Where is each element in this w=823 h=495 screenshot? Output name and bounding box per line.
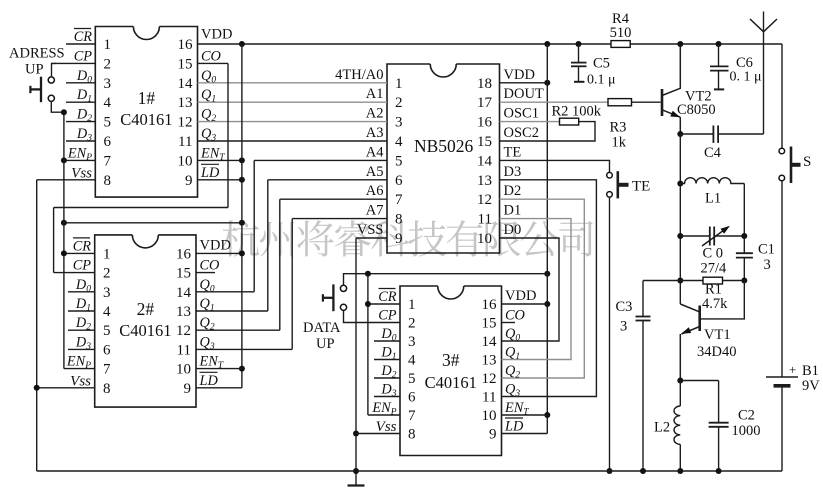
svg-text:2: 2 xyxy=(103,266,111,282)
wire U1 CO out xyxy=(198,62,229,64)
wire U2 VDD to vertical xyxy=(196,252,242,254)
wire U2 D1 stub xyxy=(68,310,95,312)
svg-text:3#: 3# xyxy=(442,350,460,370)
svg-text:Vss: Vss xyxy=(70,373,91,389)
wire NB D2 to U3 Q2 xyxy=(500,199,585,378)
transistor VT1 body bar xyxy=(698,306,701,332)
wire U1 D2 stub xyxy=(66,121,95,123)
svg-text:C4: C4 xyxy=(704,145,722,161)
svg-text:B1: B1 xyxy=(802,363,819,379)
wire U2 D0 stub xyxy=(68,291,95,293)
wire U1 LD to VDD vertical xyxy=(198,179,242,181)
svg-text:CO: CO xyxy=(505,308,525,324)
node VDD rail to NB5026/IC3 vertical xyxy=(544,41,550,47)
svg-text:3: 3 xyxy=(620,319,627,335)
wire U2 Q0 out xyxy=(196,291,254,293)
node ground rail L2 xyxy=(677,468,683,474)
node ground rail TE xyxy=(607,468,613,474)
node VDD rail C6 xyxy=(716,41,722,47)
wire U3 D0 stub xyxy=(374,340,400,342)
svg-text:4.7k: 4.7k xyxy=(702,296,728,312)
svg-text:7: 7 xyxy=(104,153,112,169)
wire ground bottom rail xyxy=(37,470,782,472)
wire CO net into U2 CP xyxy=(54,272,95,274)
wire A5 link U2 Q1 xyxy=(267,180,269,311)
svg-text:15: 15 xyxy=(482,316,497,332)
switch S3 actuator bar xyxy=(616,171,619,198)
svg-text:CP: CP xyxy=(73,258,92,274)
svg-text:9: 9 xyxy=(184,381,192,397)
wire U1 Q1 to NB5026 A1 xyxy=(198,101,388,103)
wire U1 D0 stub xyxy=(66,82,95,84)
svg-text:DATA: DATA xyxy=(303,320,341,336)
wire U2 LD to vertical xyxy=(196,387,242,389)
svg-text:CP: CP xyxy=(378,308,397,324)
svg-text:10: 10 xyxy=(176,362,191,378)
svg-text:A1: A1 xyxy=(366,86,384,102)
ground symbol bar xyxy=(348,484,365,486)
svg-text:CR: CR xyxy=(73,238,92,254)
wire CO net horizontal y=207.5 xyxy=(54,207,228,209)
node U3 CR junction xyxy=(365,301,371,307)
switch S stem xyxy=(791,163,801,167)
switch S1 actuator bar xyxy=(40,77,42,103)
node U2 Vss junction xyxy=(34,385,40,391)
svg-text:6: 6 xyxy=(395,173,403,189)
svg-text:L2: L2 xyxy=(654,420,670,436)
svg-text:A5: A5 xyxy=(366,164,384,180)
wire NB VDD to vertical xyxy=(500,82,548,84)
svg-text:+: + xyxy=(789,362,796,377)
IC U3 3# C40161 body xyxy=(400,286,502,456)
svg-text:UP: UP xyxy=(316,336,335,352)
wire U3 LD to vertical xyxy=(502,433,548,435)
wire CO net vertical at x=53.6 xyxy=(53,208,55,273)
node VDD rail to IC2 vertical xyxy=(239,41,245,47)
svg-text:OSC1: OSC1 xyxy=(504,106,539,122)
wire U1 Q2 to NB5026 A2 xyxy=(198,121,388,123)
node NB VDD junction xyxy=(544,80,550,86)
svg-text:NB5026: NB5026 xyxy=(414,136,474,156)
svg-text:4: 4 xyxy=(103,304,111,320)
svg-text:4TH/A0: 4TH/A0 xyxy=(335,67,383,83)
svg-text:2: 2 xyxy=(395,95,403,111)
wire U1 CR stub xyxy=(66,43,95,45)
svg-text:15: 15 xyxy=(178,56,193,72)
svg-text:TE: TE xyxy=(632,179,650,195)
svg-text:2#: 2# xyxy=(137,299,155,319)
svg-text:4: 4 xyxy=(395,134,403,150)
node L2 C2 top xyxy=(677,378,683,384)
svg-text:14: 14 xyxy=(477,153,493,169)
capacitor C6 xyxy=(718,44,720,66)
svg-text:6: 6 xyxy=(104,134,112,150)
svg-text:5: 5 xyxy=(395,153,403,169)
svg-text:A7: A7 xyxy=(366,203,384,219)
svg-text:5: 5 xyxy=(408,371,416,387)
wire L1 right down xyxy=(743,184,745,237)
wire U2 Q2 out xyxy=(196,329,280,331)
svg-text:D1: D1 xyxy=(504,203,522,219)
svg-text:3: 3 xyxy=(395,115,403,131)
wire U2 EN_P stub xyxy=(64,368,95,370)
svg-text:10: 10 xyxy=(178,153,193,169)
wire U3 CR EN_P vertical x=367.9 xyxy=(367,274,369,415)
node U2 VDD vertical bottom joins EN_T xyxy=(239,366,245,372)
switch S1 stem tick xyxy=(29,86,31,93)
svg-text:2: 2 xyxy=(408,316,416,332)
wire A4 link U2 Q0 xyxy=(253,160,255,291)
node U3 Vss junction xyxy=(353,431,359,437)
switch S2 stem tick xyxy=(322,294,324,301)
svg-text:VDD: VDD xyxy=(201,27,232,43)
wire VDD top rail right segment xyxy=(630,43,782,45)
resistor R1 xyxy=(703,277,723,284)
svg-text:R3: R3 xyxy=(610,120,627,136)
svg-text:1: 1 xyxy=(395,76,403,92)
wire R2 loop to OSC2 xyxy=(500,122,596,141)
svg-text:CR: CR xyxy=(378,289,397,305)
wire NB5026 VSS down to ground rail xyxy=(356,237,387,239)
C0 arrow xyxy=(702,228,728,247)
svg-text:1: 1 xyxy=(103,246,111,262)
svg-text:OSC2: OSC2 xyxy=(504,125,539,141)
node C0 right xyxy=(741,233,747,239)
svg-text:9: 9 xyxy=(185,173,193,189)
wire VT2 emitter chain x=680.3 xyxy=(679,134,681,304)
svg-text:CR: CR xyxy=(74,29,93,45)
capacitor C3 xyxy=(642,281,644,317)
svg-text:DOUT: DOUT xyxy=(504,86,544,102)
svg-text:7: 7 xyxy=(103,362,111,378)
wire U2 CO stub xyxy=(196,272,215,274)
switch S1 ADRESS UP contacts xyxy=(48,77,54,83)
svg-text:13: 13 xyxy=(482,353,497,369)
svg-text:A2: A2 xyxy=(366,106,384,122)
svg-text:7: 7 xyxy=(395,192,403,208)
svg-text:C2: C2 xyxy=(738,408,755,424)
svg-text:VDD: VDD xyxy=(200,237,231,253)
wire C4 to antenna stem xyxy=(763,12,765,135)
transistor VT2 emitter with arrow xyxy=(662,110,680,117)
wire U1 D1 stub xyxy=(66,101,95,103)
node U3 EN_T junction xyxy=(544,412,550,418)
svg-text:C1: C1 xyxy=(758,242,775,258)
node C0 left xyxy=(677,233,683,239)
node U1 EN_P junction xyxy=(61,157,67,163)
switch S2 stem xyxy=(323,297,334,299)
capacitor C5 xyxy=(578,44,580,63)
svg-text:16: 16 xyxy=(176,246,192,262)
antenna xyxy=(750,19,764,32)
svg-text:16: 16 xyxy=(477,115,493,131)
inductor L2 xyxy=(679,381,681,407)
node VDD cross link right xyxy=(239,220,245,226)
svg-text:12: 12 xyxy=(178,115,193,131)
svg-text:27/4: 27/4 xyxy=(701,261,728,277)
svg-text:3: 3 xyxy=(408,334,416,350)
wire rail to switch S xyxy=(781,44,783,148)
wire U1 Q0 to NB5026 A0 xyxy=(198,82,388,84)
wire S1 bottom contact to left rail xyxy=(51,101,64,112)
svg-text:VDD: VDD xyxy=(505,288,536,304)
svg-text:Vss: Vss xyxy=(376,419,397,435)
node VDD cross link left xyxy=(61,220,67,226)
svg-text:C40161: C40161 xyxy=(119,321,171,340)
node S2 link to VDD vertical xyxy=(544,271,550,277)
svg-text:6: 6 xyxy=(408,390,416,406)
svg-text:LD: LD xyxy=(200,165,220,181)
wire U1 Q3 to NB5026 A3 xyxy=(198,140,388,142)
wire NB TE to TE switch xyxy=(500,160,610,172)
node R1 right xyxy=(741,278,747,284)
watermark text xyxy=(222,220,593,257)
wire U2 Q3 out xyxy=(196,348,292,350)
svg-text:34D40: 34D40 xyxy=(697,344,736,360)
wire U3 D1 stub xyxy=(374,359,400,361)
switch S actuator bar xyxy=(790,147,793,184)
svg-text:UP: UP xyxy=(25,62,44,78)
svg-text:9V: 9V xyxy=(802,378,820,394)
svg-text:VDD: VDD xyxy=(504,67,535,83)
svg-text:9: 9 xyxy=(489,427,497,443)
switch S2 DATA UP contacts xyxy=(340,285,346,291)
wire S3 bottom contact to ground rail xyxy=(609,197,611,471)
wire S to battery B1 xyxy=(781,181,783,377)
switch S1 stem xyxy=(30,88,41,90)
wire U3 CR stub xyxy=(368,303,400,305)
wire U2 EN_T to vertical xyxy=(196,368,242,370)
capacitor C4 xyxy=(680,133,713,135)
wire U2 D2 stub xyxy=(68,329,95,331)
node U1 LD VDD vertical xyxy=(239,177,245,183)
node ground rail C2 xyxy=(716,468,722,474)
wire S2 bottom contact to U3 CP xyxy=(344,310,401,322)
wire U2 D3 stub xyxy=(68,348,95,350)
svg-text:12: 12 xyxy=(176,323,191,339)
svg-text:11: 11 xyxy=(177,342,191,358)
capacitor C0 variable xyxy=(680,235,710,237)
svg-text:5: 5 xyxy=(103,323,111,339)
svg-text:0. 1 μ: 0. 1 μ xyxy=(730,70,762,85)
svg-text:Vss: Vss xyxy=(71,165,92,181)
svg-text:L1: L1 xyxy=(705,191,721,207)
svg-text:LD: LD xyxy=(199,373,219,389)
svg-text:10: 10 xyxy=(482,408,497,424)
transistor VT1 collector xyxy=(680,304,699,312)
wire U3 EN_P stub xyxy=(368,414,400,416)
svg-text:1k: 1k xyxy=(612,135,627,151)
wire VDD top rail left segment xyxy=(198,43,612,45)
svg-text:8: 8 xyxy=(395,212,403,228)
svg-text:A4: A4 xyxy=(366,144,384,160)
wire far left vertical x=36.7 xyxy=(36,180,38,471)
node S1 bottom corner xyxy=(61,109,67,115)
svg-text:C5: C5 xyxy=(593,56,610,72)
svg-text:13: 13 xyxy=(176,304,191,320)
svg-text:CP: CP xyxy=(74,48,93,64)
svg-text:VSS: VSS xyxy=(357,222,384,238)
wire U2 Vss to far-left vertical xyxy=(37,387,95,389)
svg-text:3: 3 xyxy=(104,76,112,92)
svg-text:8: 8 xyxy=(104,173,112,189)
svg-text:4: 4 xyxy=(408,353,416,369)
wire U1 EN_P to rail xyxy=(64,159,95,161)
wire NB OSC1 to R2 xyxy=(500,121,560,123)
svg-text:8: 8 xyxy=(408,427,416,443)
svg-text:10: 10 xyxy=(477,231,492,247)
inductor L1 xyxy=(680,178,744,184)
svg-text:16: 16 xyxy=(482,297,498,313)
svg-text:11: 11 xyxy=(478,212,492,228)
IC U2 2# C40161 body xyxy=(95,235,196,407)
wire U2 Q1 out xyxy=(196,310,268,312)
wire VDD vertical x=547.3 xyxy=(546,44,548,434)
wire U1 EN_T to VDD vertical xyxy=(198,159,242,161)
svg-text:TE: TE xyxy=(504,144,522,160)
wire CO net vertical at x=228 xyxy=(227,63,229,207)
svg-text:15: 15 xyxy=(477,134,492,150)
svg-text:1#: 1# xyxy=(138,88,156,108)
svg-text:R2 100k: R2 100k xyxy=(552,104,602,120)
wire A6 link U2 Q2 xyxy=(279,199,281,330)
node ground rail VSS xyxy=(353,468,359,474)
svg-text:S: S xyxy=(803,154,811,170)
svg-text:1: 1 xyxy=(408,297,416,313)
node ground rail C3 xyxy=(640,468,646,474)
IC U4 NB5026 body xyxy=(387,64,500,253)
wire VDD cross link y=222.8 xyxy=(64,222,242,224)
transistor VT2 body bar xyxy=(661,89,664,116)
wire R3 to VT2 base xyxy=(632,101,661,103)
svg-text:16: 16 xyxy=(178,37,194,53)
svg-text:VT1: VT1 xyxy=(704,327,731,343)
svg-text:510: 510 xyxy=(610,25,632,41)
node U2 CR junction xyxy=(61,250,67,256)
svg-text:8: 8 xyxy=(103,381,111,397)
svg-text:14: 14 xyxy=(176,285,192,301)
switch S contacts xyxy=(779,148,785,154)
svg-text:9: 9 xyxy=(395,231,403,247)
capacitor C2 xyxy=(680,380,718,382)
svg-text:3: 3 xyxy=(764,257,771,273)
svg-text:12: 12 xyxy=(477,192,492,208)
capacitor C1 xyxy=(743,236,745,253)
wire NB DOUT to R3 xyxy=(500,101,609,103)
svg-text:A3: A3 xyxy=(366,125,384,141)
svg-text:LD: LD xyxy=(504,419,524,435)
svg-text:6: 6 xyxy=(103,342,111,358)
svg-text:D0: D0 xyxy=(504,222,522,238)
switch S2 actuator bar xyxy=(332,284,334,311)
svg-text:1000: 1000 xyxy=(732,423,761,439)
wire U2 CR to left rail xyxy=(64,252,95,254)
svg-text:C3: C3 xyxy=(616,299,633,315)
svg-text:C8050: C8050 xyxy=(677,102,716,118)
wire NB D1 to U3 Q1 xyxy=(500,219,572,360)
svg-text:C40161: C40161 xyxy=(120,110,172,129)
svg-text:13: 13 xyxy=(178,95,193,111)
wire NB D3 to U3 Q3 xyxy=(500,180,597,397)
node U1 EN_T VDD vertical xyxy=(239,157,245,163)
svg-text:2: 2 xyxy=(104,56,112,72)
svg-text:C40161: C40161 xyxy=(425,373,477,392)
wire VDD vertical x=241.9 (rail to U2) xyxy=(241,44,243,388)
svg-text:CO: CO xyxy=(201,48,221,64)
node U3 VDD junction xyxy=(544,301,550,307)
wire left rail x=63.9 xyxy=(63,112,65,368)
wire U1 D3 stub xyxy=(66,140,95,142)
wire A7 link U2 Q3 xyxy=(291,219,293,350)
svg-text:D3: D3 xyxy=(504,164,522,180)
transistor VT1 emitter with arrow xyxy=(682,327,700,335)
wire U3 CO stub xyxy=(502,322,516,324)
wire U3 Vss stub xyxy=(356,433,400,435)
wire S1 top contact to U1 CP xyxy=(52,63,57,77)
wire U1 CP to ADRESS UP switch xyxy=(52,62,96,64)
node U2 VDD junction xyxy=(239,250,245,256)
node R1 left xyxy=(677,278,683,284)
resistor R3 xyxy=(608,99,632,106)
wire U1 Vss to far-left vertical xyxy=(37,179,96,181)
wire U3 D2 stub xyxy=(374,377,400,379)
wire U3 VDD to vertical xyxy=(502,303,548,305)
svg-text:0.1 μ: 0.1 μ xyxy=(587,73,616,88)
wire NB D0 to U3 Q0 xyxy=(500,238,560,341)
svg-text:D2: D2 xyxy=(504,183,522,199)
node VDD rail C5 xyxy=(576,41,582,47)
svg-text:3: 3 xyxy=(103,285,111,301)
resistor R2 xyxy=(560,118,579,125)
node VT2 emitter C4 xyxy=(677,131,683,137)
svg-text:C 0: C 0 xyxy=(703,246,724,262)
transistor VT2 collector xyxy=(662,44,680,96)
wire U3 D3 stub xyxy=(374,396,400,398)
svg-text:A6: A6 xyxy=(366,183,384,199)
svg-text:ADRESS: ADRESS xyxy=(9,46,65,62)
node VDD rail VT2 collector xyxy=(677,41,683,47)
node L1 left xyxy=(677,181,683,187)
svg-text:18: 18 xyxy=(477,76,492,92)
svg-text:1: 1 xyxy=(104,37,112,53)
node S2 link to U3 CR vertical xyxy=(365,271,371,277)
svg-text:15: 15 xyxy=(176,266,191,282)
wire U3 EN_T to vertical xyxy=(502,414,548,416)
svg-text:12: 12 xyxy=(482,371,497,387)
svg-text:7: 7 xyxy=(408,408,416,424)
battery B1 xyxy=(766,376,798,378)
switch S3 stem xyxy=(618,183,629,187)
transistor VT1 base xyxy=(701,281,744,319)
svg-text:11: 11 xyxy=(482,390,496,406)
wire S2 top contact to VDD link xyxy=(344,274,548,286)
svg-text:5: 5 xyxy=(104,115,112,131)
svg-text:14: 14 xyxy=(482,334,498,350)
svg-text:14: 14 xyxy=(178,76,194,92)
switch S3 TE contacts xyxy=(607,172,613,178)
svg-text:CO: CO xyxy=(200,258,220,274)
svg-text:13: 13 xyxy=(477,173,492,189)
IC U1 1# C40161 body xyxy=(95,27,197,198)
svg-text:11: 11 xyxy=(178,134,192,150)
svg-text:4: 4 xyxy=(104,95,112,111)
wire R1 row xyxy=(643,280,703,282)
svg-text:17: 17 xyxy=(477,95,493,111)
resistor R4 xyxy=(611,41,630,48)
